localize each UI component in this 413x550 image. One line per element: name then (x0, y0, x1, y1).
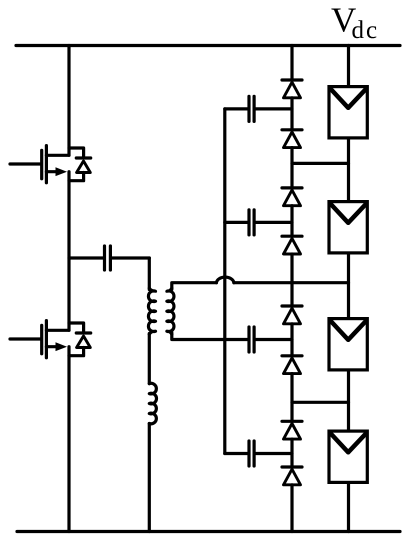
capacitor C1 left plate (247, 96, 250, 121)
PV module PV3 (329, 319, 367, 370)
diode D4 (282, 236, 302, 254)
wire PV3 bottom tap (292, 401, 349, 404)
wire D1 to D2 (290, 98, 293, 128)
wire PV3 to PV4 (347, 371, 350, 430)
wire D6 to D7 (290, 374, 293, 420)
wire C4 row left (225, 452, 248, 455)
wire left leg lower (Q2 source to bottom rail) (67, 347, 70, 532)
wire C1 row left (225, 107, 248, 110)
diode D5 (282, 306, 302, 324)
capacitor C5 midpoint right plate (110, 246, 149, 270)
wire D7 to D8 (290, 439, 293, 465)
diode D3 (282, 188, 302, 206)
node Vdc label (331, 1, 379, 45)
wire primary top (cap C5 to transformer) (148, 258, 151, 290)
diode D2 (282, 130, 302, 148)
capacitor C5 midpoint left plate (69, 246, 105, 270)
svg-text:dc: dc (352, 17, 380, 44)
wire C2 row left (225, 221, 248, 224)
wire primary to resonant inductor (148, 334, 151, 384)
body diode of Q2 (69, 323, 91, 356)
wire D4 to D5 (290, 254, 293, 304)
wire PV2 to PV3 (347, 255, 350, 318)
wire diode string top (rail to D1) (290, 46, 293, 79)
PV module PV1 (329, 87, 367, 138)
wire D5 to D6 (290, 324, 293, 354)
diode D1 (282, 80, 302, 98)
inductor Lr (149, 383, 156, 424)
wire PV1 bottom tap (292, 162, 349, 165)
transformer T1 primary winding (148, 288, 155, 334)
wire bus vertical (223, 109, 226, 454)
transformer T1 secondary winding (167, 288, 174, 334)
wire secondary top terminal (172, 283, 217, 290)
capacitor C3 left plate (247, 327, 250, 352)
wire PV string (rail to PV1) (347, 46, 350, 86)
transistor Q2 (10, 321, 69, 358)
wire PV4 to bottom rail (347, 484, 350, 532)
body diode of Q1 (69, 148, 91, 181)
wire PV1 to PV2 (347, 140, 350, 201)
wire D3 to D4 (290, 206, 293, 235)
capacitor C1 right plate (254, 96, 292, 121)
capacitor C4 right plate (254, 441, 292, 466)
wire left leg middle (Q1 source to Q2 drain) (67, 172, 70, 331)
wire bottom rail (17, 530, 400, 533)
wire left leg upper (rail to Q1 drain) (67, 46, 70, 156)
capacitor C2 left plate (247, 210, 250, 235)
diode D6 (282, 356, 302, 374)
wire crossover hop over bus (216, 277, 234, 283)
capacitor C4 left plate (247, 441, 250, 466)
PV module PV4 (329, 431, 367, 482)
diode D7 (282, 421, 302, 439)
wire secondary bottom terminal (172, 333, 248, 340)
wire inductor to bottom rail (148, 424, 151, 532)
wire secondary top to diode string and PV string (234, 281, 349, 284)
PV module PV2 (329, 202, 367, 253)
capacitor C3 right plate (254, 327, 292, 352)
wire top rail Vdc (16, 44, 400, 47)
diode D8 (282, 467, 302, 485)
wire D2 to D3 (290, 148, 293, 187)
wire D8 to bottom rail (290, 485, 293, 532)
capacitor C2 right plate (254, 210, 292, 235)
transistor Q1 (10, 146, 69, 183)
